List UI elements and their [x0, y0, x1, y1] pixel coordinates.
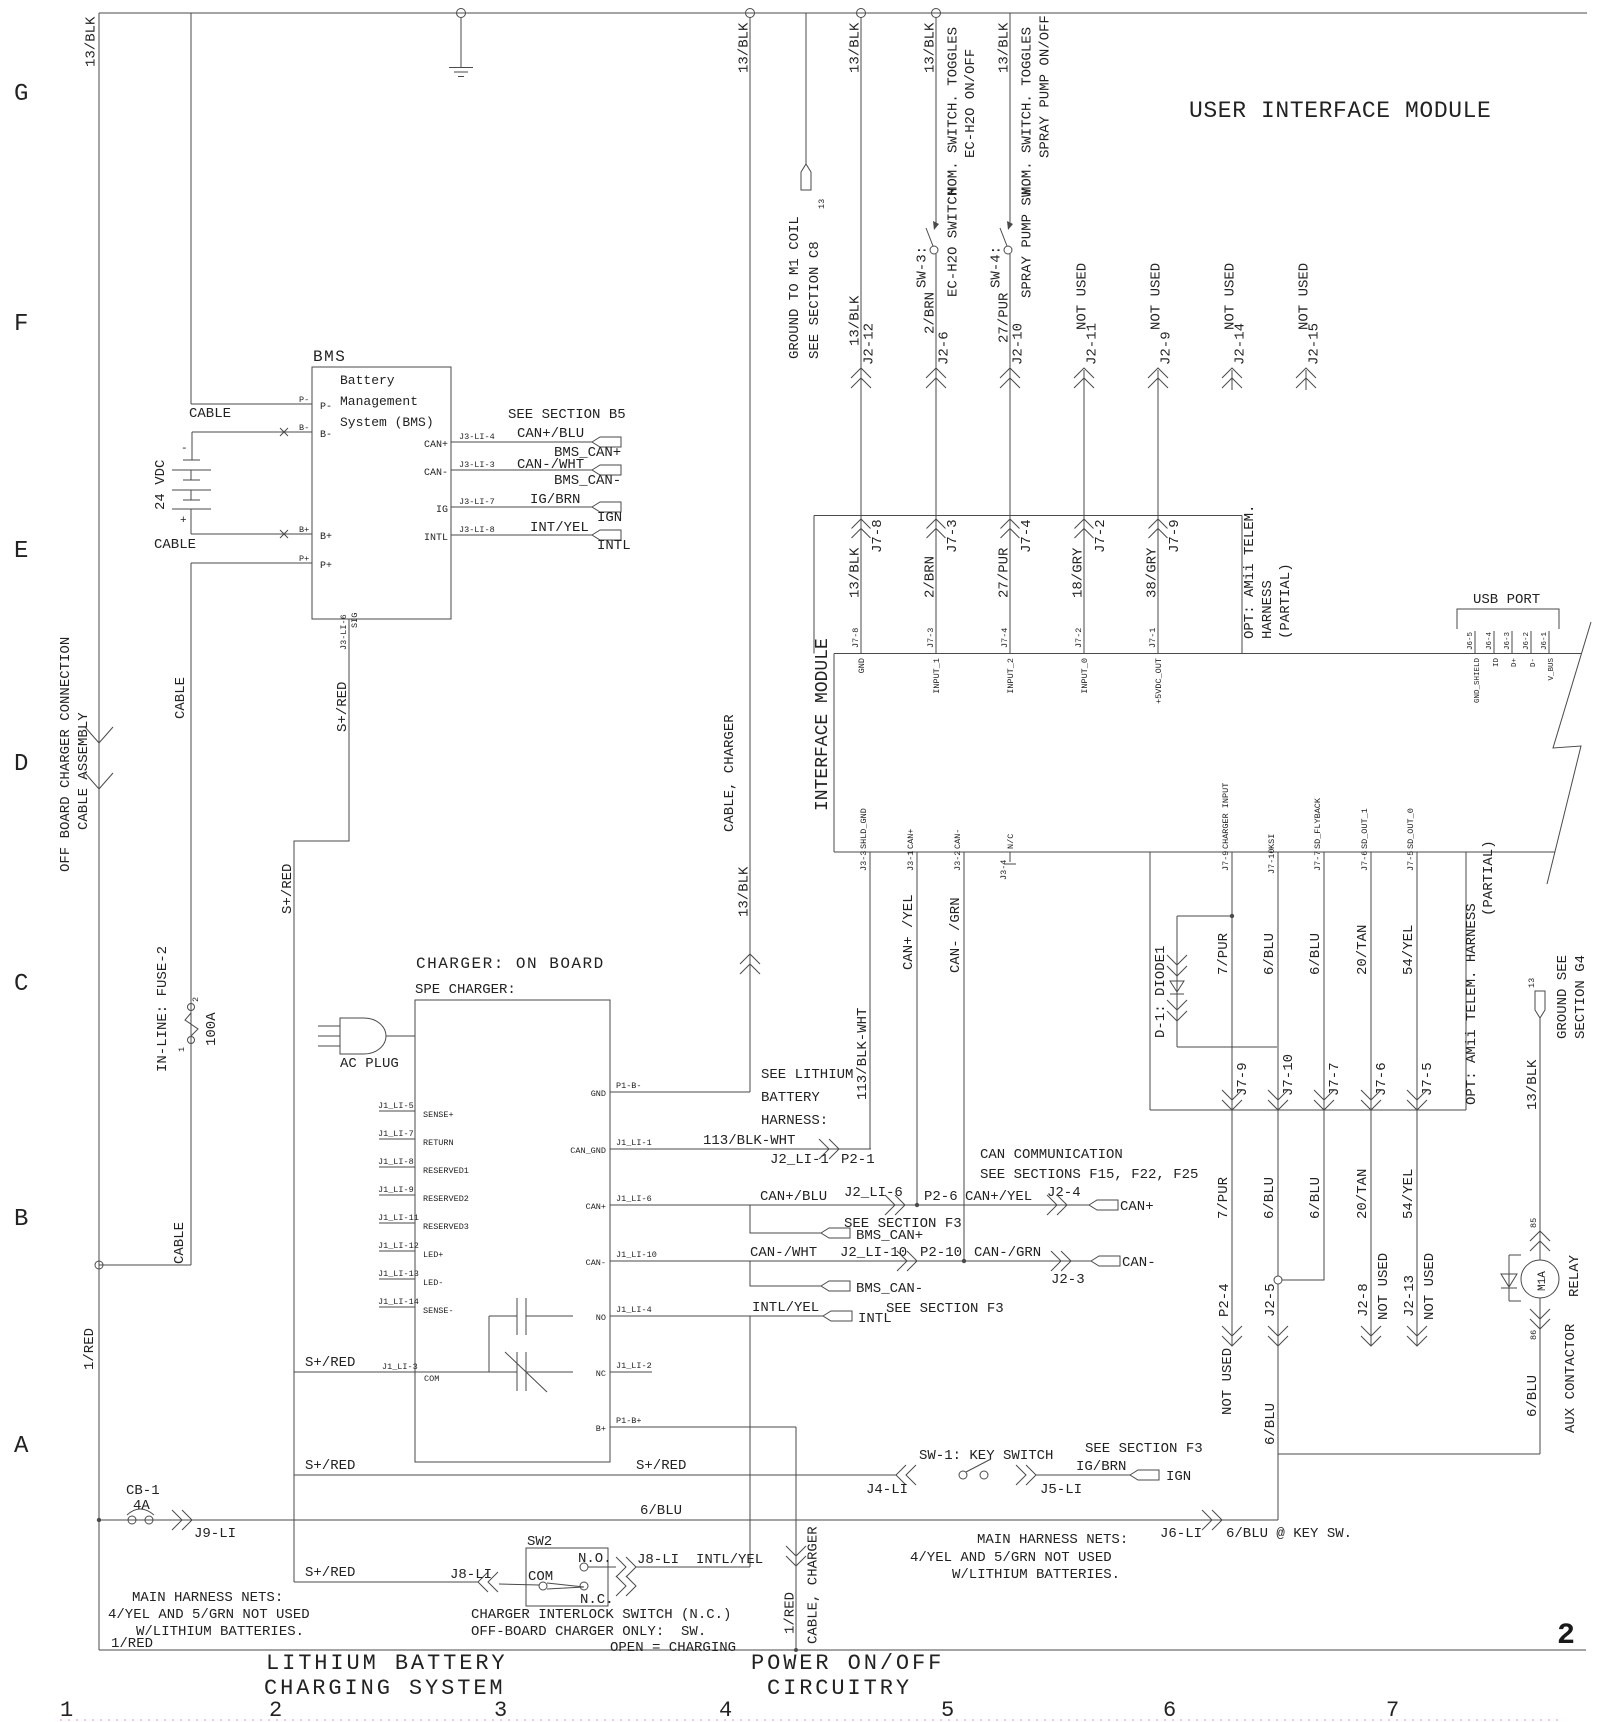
- USB pin J6-4 ID: [1486, 631, 1501, 667]
- svg-text:LITHIUM BATTERY: LITHIUM BATTERY: [266, 1651, 508, 1676]
- svg-text:W/LITHIUM BATTERIES.: W/LITHIUM BATTERIES.: [952, 1567, 1120, 1583]
- wire 38/GRY column x1158: [1157, 370, 1159, 654]
- svg-text:J7-8: J7-8: [870, 519, 886, 553]
- USB pin J6-1 V_BUS: [1541, 631, 1556, 681]
- title LITHIUM BATTERY CHARGING SYSTEM: [264, 1651, 508, 1701]
- terminal CAN-: [1091, 1256, 1120, 1266]
- svg-text:4: 4: [719, 1698, 732, 1722]
- svg-text:J4-LI: J4-LI: [866, 1482, 908, 1498]
- svg-text:D-1: DIODE1: D-1: DIODE1: [1153, 946, 1169, 1038]
- svg-text:GROUND SEE: GROUND SEE: [1555, 955, 1571, 1039]
- svg-text:J3-3: J3-3: [859, 851, 869, 871]
- connector arrow J7-7 at harness bottom: [1314, 1090, 1334, 1110]
- connector arrow J2-15: [1296, 368, 1316, 390]
- svg-text:NOT USED: NOT USED: [1297, 263, 1313, 330]
- svg-text:HARNESS:: HARNESS:: [761, 1113, 828, 1129]
- connector arrow J2_LI-10: [897, 1251, 917, 1271]
- svg-text:CAN_GND: CAN_GND: [570, 1146, 606, 1156]
- svg-text:RETURN: RETURN: [423, 1138, 454, 1148]
- svg-text:SEE SECTIONS F15, F22, F25: SEE SECTIONS F15, F22, F25: [980, 1167, 1198, 1183]
- wire 7/PUR below harness x1232: [1231, 1110, 1233, 1346]
- wire IG/BRN to IGN terminal: [1036, 1474, 1130, 1476]
- battery 24 VDC: [172, 443, 211, 527]
- note MAIN HARNESS NETS right: [910, 1532, 1128, 1583]
- wire CAN_GND 113/BLK-WHT row: [610, 1148, 871, 1150]
- svg-text:SD_FLYBACK: SD_FLYBACK: [1313, 797, 1323, 849]
- charger SPE box: [415, 1000, 610, 1462]
- svg-text:13: 13: [817, 199, 827, 209]
- connector arrow J7-4: [1001, 519, 1020, 538]
- wire 13/BLK relay x1540 upper: [1539, 1018, 1541, 1260]
- connector arrow J2-11: [1074, 368, 1094, 388]
- svg-text:6: 6: [1163, 1698, 1176, 1722]
- charger pin B+ P1-B+: [596, 1416, 642, 1434]
- terminal CAN+: [1089, 1200, 1118, 1210]
- svg-text:6/BLU: 6/BLU: [1263, 1403, 1279, 1445]
- switch SW-3: [926, 221, 939, 254]
- svg-text:CAN-/WHT: CAN-/WHT: [750, 1245, 817, 1261]
- node on top border x936: [932, 9, 941, 18]
- svg-text:24 VDC: 24 VDC: [153, 460, 169, 510]
- connector arrow P2-4: [1222, 1326, 1242, 1346]
- svg-text:CAN+/BLU: CAN+/BLU: [517, 426, 584, 442]
- connector arrow J2_LI-1 P2-1: [819, 1139, 839, 1159]
- svg-text:J1_LI-9: J1_LI-9: [378, 1185, 414, 1195]
- svg-text:NOT USED: NOT USED: [1149, 263, 1165, 330]
- terminal BMS_CAN+: [592, 437, 621, 447]
- cable-assembly break chevron upper on left border: [85, 727, 113, 743]
- junction circle 6/BLU x1278: [1274, 1276, 1282, 1284]
- pin labels J3-LI-6 SIG: [339, 613, 360, 650]
- wire 1/RED cable charger down: [795, 1427, 797, 1650]
- wire 6/BLU below harness x1278: [1277, 1110, 1279, 1276]
- circuit breaker CB-1 4A: [127, 1509, 154, 1524]
- splice X on B- wire: [280, 428, 288, 436]
- svg-text:BMS_CAN-: BMS_CAN-: [554, 473, 621, 489]
- svg-text:1: 1: [177, 1047, 187, 1052]
- svg-text:J3-4: J3-4: [999, 860, 1009, 880]
- svg-text:C: C: [14, 971, 28, 998]
- connector arrow J7-2: [1075, 519, 1094, 538]
- svg-text:MOM. SWITCH. TOGGLES: MOM. SWITCH. TOGGLES: [1020, 27, 1036, 195]
- svg-text:100A: 100A: [204, 1012, 220, 1046]
- svg-text:CIRCUITRY: CIRCUITRY: [767, 1676, 912, 1701]
- svg-text:J7-10: J7-10: [1267, 848, 1277, 874]
- svg-text:IGN: IGN: [597, 510, 622, 526]
- wire CAN- J3-2 vertical x964: [963, 852, 965, 1261]
- svg-text:IGN: IGN: [1166, 1469, 1191, 1485]
- svg-text:J8-LI: J8-LI: [450, 1567, 492, 1583]
- svg-text:BATTERY: BATTERY: [761, 1090, 820, 1106]
- svg-text:SENSE+: SENSE+: [423, 1110, 454, 1120]
- svg-text:IG/BRN: IG/BRN: [1076, 1459, 1126, 1475]
- USB port bracket: [1457, 609, 1559, 629]
- svg-text:SEE SECTION B5: SEE SECTION B5: [508, 407, 626, 423]
- svg-text:J8-LI: J8-LI: [637, 1552, 679, 1568]
- connector terminal 13 ground G4: [1535, 991, 1545, 1018]
- svg-text:NO: NO: [596, 1313, 606, 1323]
- svg-text:J1_LI-8: J1_LI-8: [378, 1157, 414, 1167]
- svg-text:-: -: [181, 443, 188, 455]
- svg-text:RESERVED2: RESERVED2: [423, 1194, 469, 1204]
- switch SW2 charger interlock: [526, 1548, 616, 1606]
- svg-text:(PARTIAL): (PARTIAL): [1278, 563, 1294, 639]
- svg-text:W/LITHIUM BATTERIES.: W/LITHIUM BATTERIES.: [136, 1624, 304, 1640]
- svg-text:J2_LI-10: J2_LI-10: [840, 1245, 907, 1261]
- wire BMS B+ row: [191, 533, 312, 535]
- svg-text:E: E: [14, 538, 28, 565]
- connector arrow J8-LI NO: [616, 1557, 636, 1577]
- svg-text:POWER ON/OFF: POWER ON/OFF: [751, 1651, 944, 1676]
- svg-text:OPT: AMii TELEM. HARNESS: OPT: AMii TELEM. HARNESS: [1464, 903, 1480, 1105]
- svg-text:CAN COMMUNICATION: CAN COMMUNICATION: [980, 1147, 1123, 1163]
- svg-text:(PARTIAL): (PARTIAL): [1481, 840, 1497, 916]
- svg-text:J7-9: J7-9: [1167, 519, 1183, 553]
- svg-text:SEE SECTION F3: SEE SECTION F3: [1085, 1441, 1203, 1457]
- svg-text:5: 5: [941, 1698, 954, 1722]
- connector arrow J2-13: [1407, 1326, 1427, 1346]
- pin labels J3-3 SHLD_GND: [859, 808, 869, 871]
- sheet top border line: [99, 12, 1587, 14]
- pin labels J3-2 CAN-: [953, 829, 963, 871]
- wire 27/PUR column x1010 upper: [1009, 13, 1011, 224]
- BMS pin P+: [299, 554, 332, 572]
- svg-text:M1A: M1A: [1537, 1271, 1549, 1291]
- svg-text:6/BLU: 6/BLU: [1308, 1177, 1324, 1219]
- svg-text:J7-7: J7-7: [1327, 1062, 1343, 1096]
- svg-text:2: 2: [1557, 1619, 1575, 1653]
- svg-text:2: 2: [191, 997, 201, 1002]
- svg-text:6/BLU: 6/BLU: [1262, 1177, 1278, 1219]
- terminal INTL mid: [823, 1311, 852, 1321]
- svg-text:J1_LI-4: J1_LI-4: [616, 1305, 652, 1315]
- svg-text:54/YEL: 54/YEL: [1401, 925, 1417, 975]
- wire S+/RED key switch row: [294, 1474, 896, 1476]
- svg-text:CAN+: CAN+: [424, 440, 448, 451]
- wire relay 86 down: [1539, 1298, 1541, 1454]
- cable-assembly break chevron lower on left border: [85, 773, 113, 789]
- svg-text:P2-6: P2-6: [924, 1189, 958, 1205]
- svg-text:113/BLK-WHT: 113/BLK-WHT: [703, 1133, 795, 1149]
- svg-text:SPRAY PUMP ON/OFF: SPRAY PUMP ON/OFF: [1038, 15, 1054, 158]
- charger pin J1_LI-11 RESERVED3: [378, 1213, 469, 1232]
- svg-text:J1_LI-12: J1_LI-12: [378, 1241, 419, 1251]
- title POWER ON/OFF CIRCUITRY: [751, 1651, 944, 1701]
- svg-text:CAN- /GRN: CAN- /GRN: [948, 897, 964, 973]
- svg-text:SD_OUT_0: SD_OUT_0: [1406, 808, 1416, 849]
- svg-text:A: A: [14, 1433, 29, 1460]
- svg-text:P+: P+: [320, 561, 332, 572]
- svg-text:GND: GND: [857, 658, 867, 673]
- svg-text:GND: GND: [591, 1089, 606, 1099]
- charger pin J1_LI-5 SENSE+: [378, 1101, 454, 1120]
- svg-text:CAN-: CAN-: [1122, 1255, 1156, 1271]
- AC plug symbol: [318, 1018, 415, 1054]
- svg-text:SHLD_GND: SHLD_GND: [859, 808, 869, 849]
- wire CAN+ row: [610, 1204, 1089, 1206]
- svg-text:CAN-: CAN-: [953, 829, 963, 849]
- wire charger GND to x750: [610, 1091, 750, 1093]
- svg-text:RESERVED3: RESERVED3: [423, 1222, 469, 1232]
- wire SD_OUT_0 J7-5 vertical x1417: [1416, 852, 1418, 1110]
- wire 2/BRN column x936 lower: [935, 254, 937, 654]
- connector arrow J2-9: [1148, 368, 1168, 388]
- connector arrow J8-LI NC: [616, 1576, 636, 1596]
- svg-text:J3-LI-6: J3-LI-6: [339, 614, 349, 650]
- branch wire to BMS_CAN- terminal: [750, 1261, 821, 1286]
- wire 20/TAN below harness x1371: [1370, 1110, 1372, 1346]
- svg-text:CABLE: CABLE: [173, 677, 189, 719]
- BMS pin CAN+ wire J3-LI-4: [424, 426, 592, 451]
- pin labels J7-9 CHARGER INPUT: [1221, 783, 1231, 871]
- svg-text:SEE SECTION F3: SEE SECTION F3: [886, 1301, 1004, 1317]
- svg-text:USER INTERFACE MODULE: USER INTERFACE MODULE: [1189, 98, 1491, 124]
- svg-text:J6-2: J6-2: [1523, 632, 1531, 650]
- svg-text:N/C: N/C: [1006, 834, 1016, 849]
- charger internal contact NC with slash: [505, 1352, 573, 1392]
- svg-text:NC: NC: [596, 1369, 606, 1379]
- connector arrow J2_LI-6: [885, 1195, 905, 1215]
- svg-text:6/BLU: 6/BLU: [1525, 1375, 1541, 1417]
- svg-text:SENSE-: SENSE-: [423, 1306, 454, 1316]
- svg-text:INTL/YEL: INTL/YEL: [752, 1300, 819, 1316]
- svg-text:SPE CHARGER:: SPE CHARGER:: [415, 982, 516, 998]
- svg-text:J1_LI-5: J1_LI-5: [378, 1101, 414, 1111]
- terminal IGN key: [1130, 1470, 1159, 1480]
- charger pin J1_LI-9 RESERVED2: [378, 1185, 469, 1204]
- svg-text:1/RED: 1/RED: [783, 1592, 799, 1634]
- wire CHARGER INPUT J7-9 vertical x1232: [1231, 852, 1233, 1110]
- svg-text:13/BLK: 13/BLK: [997, 22, 1013, 73]
- USB pin J6-3 D+: [1504, 631, 1519, 667]
- svg-text:38/GRY: 38/GRY: [1145, 547, 1161, 598]
- svg-text:RELAY: RELAY: [1567, 1254, 1583, 1297]
- terminal BMS_CAN-: [592, 465, 621, 475]
- connector arrow J5-LI: [1016, 1465, 1036, 1485]
- svg-text:CAN+: CAN+: [906, 829, 916, 849]
- svg-text:J1_LI-13: J1_LI-13: [378, 1269, 419, 1279]
- svg-text:J7-7: J7-7: [1313, 851, 1323, 871]
- connector arrow J7-5 at harness bottom: [1407, 1090, 1427, 1110]
- wire SHLD_GND J3-3 vertical x870: [869, 852, 871, 1149]
- svg-text:INTL/YEL: INTL/YEL: [696, 1552, 763, 1568]
- wire BMS P- row: [191, 403, 312, 405]
- svg-text:J5-LI: J5-LI: [1040, 1482, 1082, 1498]
- wire cable x191 top: [190, 13, 192, 404]
- pin labels J7-10 KSI: [1267, 834, 1277, 874]
- connector arrow J2-4: [1047, 1195, 1067, 1215]
- svg-text:CAN+ /YEL: CAN+ /YEL: [901, 894, 917, 970]
- svg-text:INPUT_1: INPUT_1: [932, 658, 942, 694]
- svg-text:NOT USED: NOT USED: [1075, 263, 1091, 330]
- svg-text:IN-LINE: FUSE-2: IN-LINE: FUSE-2: [155, 946, 171, 1072]
- note SEE LITHIUM BATTERY HARNESS: [761, 1067, 853, 1129]
- svg-text:J7-5: J7-5: [1406, 851, 1416, 871]
- svg-text:CB-1: CB-1: [126, 1483, 160, 1499]
- svg-text:J7-2: J7-2: [1093, 519, 1109, 553]
- svg-text:J7-2: J7-2: [1074, 628, 1084, 648]
- svg-text:OFF-BOARD CHARGER ONLY: SW.: OFF-BOARD CHARGER ONLY: SW.: [471, 1624, 706, 1640]
- wire 13/BLK column x861: [860, 18, 862, 654]
- junction dot CAN+ x917: [915, 1203, 919, 1207]
- svg-text:CABLE ASSEMBLY: CABLE ASSEMBLY: [76, 712, 92, 830]
- svg-text:4/YEL AND 5/GRN NOT USED: 4/YEL AND 5/GRN NOT USED: [108, 1607, 310, 1623]
- svg-text:D-: D-: [1530, 658, 1538, 667]
- svg-text:J7-3: J7-3: [945, 519, 961, 553]
- svg-text:+5VDC_OUT: +5VDC_OUT: [1154, 658, 1164, 704]
- relay M1A coil circle: [1521, 1260, 1559, 1298]
- svg-text:P-: P-: [299, 395, 309, 405]
- svg-text:2/BRN: 2/BRN: [923, 556, 939, 598]
- terminal BMS_CAN+ mid: [821, 1228, 850, 1238]
- wire 13/BLK cable-charger vertical x750: [749, 18, 751, 1093]
- pin labels J3-1 CAN+: [906, 829, 916, 871]
- svg-text:ID: ID: [1493, 658, 1501, 668]
- note CAN COMMUNICATION: [980, 1147, 1198, 1183]
- svg-text:IG/BRN: IG/BRN: [530, 492, 580, 508]
- sheet bottom border line: [99, 1649, 1586, 1651]
- svg-text:System (BMS): System (BMS): [340, 415, 434, 430]
- wire J8-LI to SW2 COM: [499, 1584, 539, 1585]
- svg-text:CABLE: CABLE: [154, 537, 196, 553]
- svg-text:MAIN HARNESS NETS:: MAIN HARNESS NETS:: [132, 1590, 283, 1606]
- svg-text:J9-LI: J9-LI: [194, 1526, 236, 1542]
- note CHARGER INTERLOCK SWITCH: [471, 1607, 736, 1656]
- svg-text:AC PLUG: AC PLUG: [340, 1056, 399, 1072]
- svg-text:COM: COM: [424, 1374, 439, 1384]
- svg-text:CHARGER INTERLOCK SWITCH (N.C.: CHARGER INTERLOCK SWITCH (N.C.): [471, 1607, 731, 1623]
- charger internal contact NO: [489, 1298, 573, 1372]
- svg-text:CAN-: CAN-: [424, 468, 448, 479]
- svg-text:J6-4: J6-4: [1486, 631, 1494, 650]
- svg-text:13/BLK: 13/BLK: [923, 22, 939, 73]
- wire 6/BLU x1278 down to key switch row: [1277, 1284, 1279, 1520]
- svg-text:GROUND TO M1 COIL: GROUND TO M1 COIL: [787, 216, 803, 359]
- wire cable x191 down: [190, 563, 192, 1265]
- svg-text:D+: D+: [1511, 658, 1519, 668]
- svg-text:P2-1: P2-1: [841, 1152, 875, 1168]
- wire SD_FLYBACK J7-7 vertical x1324: [1323, 852, 1325, 1110]
- svg-text:CABLE: CABLE: [189, 406, 231, 422]
- wire ground to M1 coil stub: [805, 13, 807, 164]
- charger pin J1_LI-14 SENSE-: [378, 1297, 454, 1316]
- pin labels J7-5 SD_OUT_0: [1406, 808, 1416, 871]
- svg-text:S+/RED: S+/RED: [305, 1565, 355, 1581]
- svg-text:SEE LITHIUM: SEE LITHIUM: [761, 1067, 853, 1083]
- svg-text:13/BLK: 13/BLK: [1525, 1059, 1541, 1110]
- svg-text:S+/RED: S+/RED: [305, 1458, 355, 1474]
- arrow up relay 85: [1530, 1231, 1550, 1251]
- svg-text:SIG: SIG: [350, 613, 360, 628]
- svg-text:6/BLU: 6/BLU: [640, 1503, 682, 1519]
- svg-text:F: F: [14, 311, 28, 338]
- svg-text:SW2: SW2: [527, 1534, 552, 1550]
- arrow up on cable-charger wire: [740, 954, 760, 974]
- svg-text:13/BLK: 13/BLK: [848, 547, 864, 598]
- svg-text:CAN+: CAN+: [1120, 1199, 1154, 1215]
- svg-text:S+/RED: S+/RED: [335, 682, 351, 732]
- svg-text:27/PUR: 27/PUR: [997, 547, 1013, 598]
- svg-text:J6-3: J6-3: [1504, 631, 1512, 650]
- node on top border x750: [746, 9, 755, 18]
- harness box AMii telem upper: [814, 516, 1242, 654]
- svg-text:G: G: [14, 81, 28, 108]
- junction dot 6/BLU left border: [97, 1518, 101, 1522]
- svg-text:J3-2: J3-2: [953, 851, 963, 871]
- svg-text:1/RED: 1/RED: [82, 1328, 98, 1370]
- svg-text:J1_LI-3: J1_LI-3: [382, 1362, 418, 1372]
- wire B+ P1-B+ row: [610, 1426, 796, 1428]
- svg-text:7/PUR: 7/PUR: [1216, 932, 1232, 975]
- charger pin GND P1-B-: [591, 1081, 642, 1099]
- pink revision dotted line bottom: [60, 1719, 1560, 1721]
- charger pin NO J1_LI-4: [596, 1305, 652, 1323]
- text Battery Management System (BMS): [340, 373, 434, 430]
- arrow down relay 86: [1530, 1309, 1550, 1329]
- svg-text:B+: B+: [320, 532, 332, 543]
- svg-text:J3-1: J3-1: [906, 851, 916, 871]
- splice X on B+ wire: [280, 530, 288, 538]
- svg-text:INTL: INTL: [858, 1311, 892, 1327]
- pin labels J7-7 SD_FLYBACK: [1313, 797, 1323, 871]
- svg-text:J2_LI-6: J2_LI-6: [844, 1185, 903, 1201]
- svg-text:RESERVED1: RESERVED1: [423, 1166, 469, 1176]
- charger NC stub: [610, 1371, 652, 1373]
- svg-text:S+/RED: S+/RED: [636, 1458, 686, 1474]
- terminal IGN: [592, 502, 621, 512]
- charger pin CAN_GND J1_LI-1: [570, 1138, 651, 1156]
- fuse FUSE-2 100A: [177, 997, 201, 1052]
- svg-text:CAN-/GRN: CAN-/GRN: [974, 1245, 1041, 1261]
- svg-text:N.O.: N.O.: [578, 1551, 612, 1567]
- svg-text:13/BLK: 13/BLK: [848, 22, 864, 73]
- svg-text:J1_LI-14: J1_LI-14: [378, 1297, 419, 1307]
- svg-text:LED+: LED+: [423, 1250, 443, 1260]
- svg-text:J1_LI-1: J1_LI-1: [616, 1138, 652, 1148]
- wire 27/PUR column x1010 lower: [1009, 254, 1011, 654]
- svg-text:7/PUR: 7/PUR: [1216, 1176, 1232, 1219]
- svg-text:NOT USED: NOT USED: [1223, 263, 1239, 330]
- svg-text:INTL: INTL: [424, 533, 448, 544]
- wire cable join left border: [99, 1264, 191, 1266]
- svg-text:P1-B-: P1-B-: [616, 1081, 642, 1091]
- svg-text:USB PORT: USB PORT: [1473, 592, 1540, 608]
- wire INTL row: [610, 1315, 823, 1317]
- svg-text:BMS: BMS: [313, 348, 346, 366]
- connector arrow J8-LI left: [478, 1572, 498, 1592]
- svg-text:HARNESS: HARNESS: [1260, 580, 1276, 639]
- svg-text:COM: COM: [528, 1569, 553, 1585]
- wire relay to 6/BLU junction: [1278, 1453, 1540, 1455]
- svg-text:J2-14: J2-14: [1233, 323, 1249, 365]
- connector arrow J2-6: [926, 368, 946, 388]
- svg-text:CHARGER INPUT: CHARGER INPUT: [1221, 783, 1231, 849]
- diode D-1 circuit: [1167, 916, 1277, 1047]
- wire battery down to B+ row: [190, 509, 192, 534]
- svg-text:P+: P+: [299, 554, 309, 564]
- svg-text:J7-5: J7-5: [1420, 1062, 1436, 1096]
- svg-text:SW-1: KEY SWITCH: SW-1: KEY SWITCH: [919, 1448, 1053, 1464]
- svg-text:J7-6: J7-6: [1374, 1062, 1390, 1096]
- connector arrow J2-8: [1361, 1326, 1381, 1346]
- dot at bottom border 1/RED: [794, 1648, 798, 1652]
- switch SW-1 key switch: [959, 1459, 991, 1479]
- svg-text:J7-1: J7-1: [1148, 628, 1158, 648]
- svg-text:J1_LI-6: J1_LI-6: [616, 1194, 652, 1204]
- svg-text:B-: B-: [320, 430, 332, 441]
- pin stub J3-4 N/C: [999, 834, 1016, 880]
- svg-text:J7-9: J7-9: [1221, 851, 1231, 871]
